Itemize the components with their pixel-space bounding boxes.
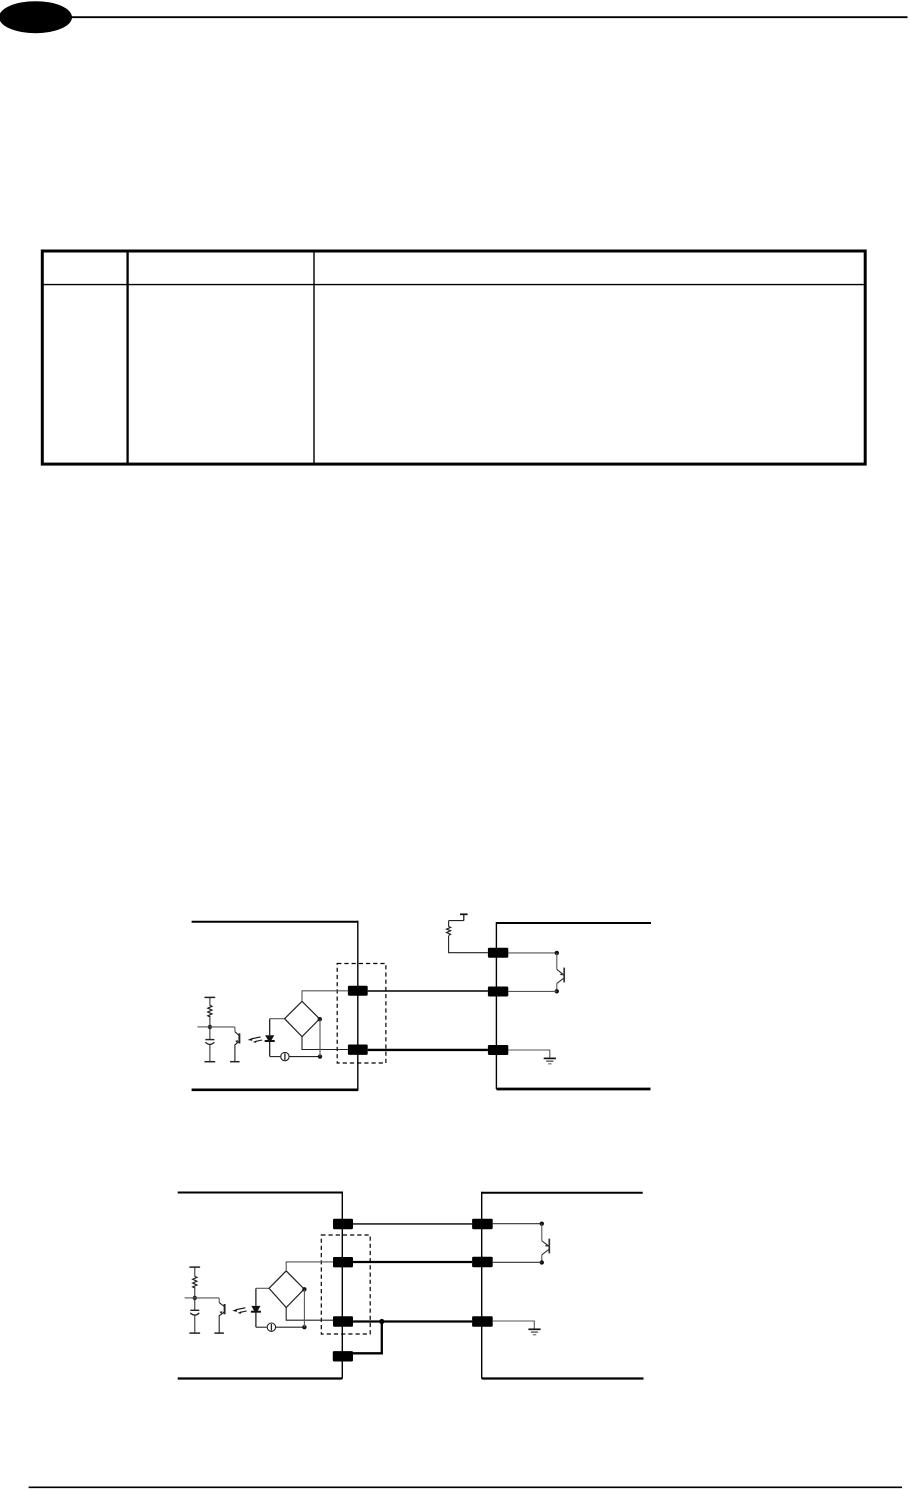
dashed connector outline, circuit 1 [337, 964, 386, 1064]
wire transistor to terminal R1-2 [508, 990, 557, 992]
wire LED cathode to current source [270, 1056, 281, 1058]
LED D1 optocoupler diode [265, 1019, 275, 1057]
diode bridge DB2 [269, 1271, 304, 1308]
wire L2-2 to R2-2 thick [353, 1261, 472, 1263]
wire L2-3 to R2-3 thick [353, 1320, 472, 1322]
wire current source to node c2 [276, 1326, 305, 1328]
wire L1-1 to R1-2 [368, 990, 488, 992]
power rail symbol circuit 1 [460, 914, 468, 920]
wire LED anode to bridge c2 [256, 1287, 269, 1289]
wire LED cathode to current source c2 [256, 1326, 267, 1328]
table header row separator [41, 284, 866, 286]
current source I1 [281, 1052, 289, 1060]
transistor Q2 [557, 953, 564, 991]
terminal block L2-4 [333, 1351, 353, 1361]
wire terminal R1-3 to ground [508, 1050, 550, 1058]
wire bridge top to terminal L1-1 [302, 991, 348, 1002]
wire jumper node to L2-4 [353, 1322, 382, 1354]
footer rule [29, 1486, 902, 1488]
wire bridge top to terminal L2-2 [286, 1262, 333, 1271]
wire terminal R1-1 to transistor [508, 952, 557, 954]
node tie junction [379, 1319, 384, 1324]
terminal block R1-3 [488, 1045, 508, 1055]
resistor R2 bias [447, 921, 488, 953]
wire L2-1 to R2-1 [353, 1223, 472, 1225]
node collector junction [555, 951, 559, 955]
node collector junction c2 [540, 1222, 544, 1226]
header tab ellipse [0, 1, 72, 33]
left equipment box outline, circuit 1 [192, 921, 359, 1090]
transistor Q3 phototransistor [195, 1298, 225, 1333]
node bridge dc+ c2 [302, 1287, 306, 1291]
terminal block R2-2 [472, 1257, 493, 1267]
current source I2 [267, 1323, 275, 1331]
wire current source to node [289, 1056, 320, 1058]
wire node up to bridge right [319, 1019, 321, 1056]
wire bridge bottom to terminal L1-2 [302, 1037, 348, 1050]
table column divider 1 [126, 250, 128, 464]
optocoupler light arrows circuit 1 [248, 1037, 262, 1043]
LED D2 optocoupler diode [251, 1288, 261, 1327]
terminal block L2-1 [333, 1219, 353, 1230]
resistor R1 pull-up with end bar [205, 997, 216, 1027]
wire terminal R2-3 to ground [493, 1321, 535, 1329]
terminal block L1-1 [348, 986, 368, 996]
terminal block R1-2 [488, 987, 508, 997]
capacitor C2 [189, 1298, 200, 1333]
dashed connector outline, circuit 2 [321, 1235, 370, 1334]
left equipment box outline, circuit 2 [178, 1192, 343, 1379]
node base junction circuit 1 [208, 1025, 212, 1029]
ground symbol circuit 1 [544, 1058, 556, 1063]
terminal block R2-3 [472, 1316, 493, 1327]
transistor Q1 phototransistor [210, 1027, 240, 1062]
terminal block R1-1 [488, 948, 508, 958]
wire node up to bridge right c2 [303, 1289, 305, 1327]
resistor R3 pull-up with end bar [189, 1267, 200, 1298]
table column divider 2 [313, 250, 315, 464]
optocoupler light arrows circuit 2 [232, 1308, 246, 1314]
node emitter junction [555, 989, 559, 993]
wire base stub left c2 [185, 1297, 195, 1299]
node emitter junction c2 [540, 1260, 544, 1264]
right equipment box outline, circuit 2 [482, 1192, 644, 1379]
wire LED anode to bridge [270, 1018, 285, 1020]
terminal block L1-2 [348, 1045, 368, 1055]
terminal block L2-2 [333, 1257, 353, 1267]
header rule [70, 16, 908, 18]
node bridge dc- junction [318, 1054, 322, 1058]
transistor Q4 [542, 1224, 550, 1263]
node bridge dc+ [318, 1017, 322, 1021]
right equipment box outline, circuit 1 [496, 922, 651, 1089]
wire bridge bottom to terminal L2-3 [286, 1308, 333, 1321]
terminal block L2-3 [333, 1316, 353, 1327]
node bridge dc- junction c2 [302, 1325, 306, 1329]
ground symbol circuit 2 [528, 1329, 540, 1334]
wire transistor to terminal R2-2 [493, 1261, 542, 1263]
wire base stub left [198, 1026, 210, 1028]
capacitor C1 [205, 1027, 216, 1062]
wire terminal R2-1 to transistor [493, 1223, 542, 1225]
diode bridge DB1 [285, 1001, 320, 1036]
wire L1-2 to R1-3 thick [368, 1049, 488, 1051]
node base junction circuit 2 [193, 1296, 197, 1300]
table outer border [42, 251, 865, 464]
terminal block R2-1 [472, 1219, 493, 1230]
